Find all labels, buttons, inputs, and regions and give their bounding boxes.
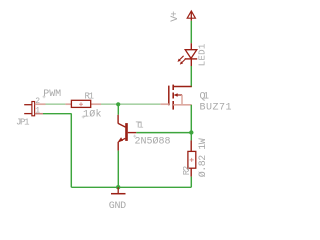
svg-text:T1: T1: [136, 121, 144, 131]
svg-text:GND: GND: [109, 201, 127, 210]
svg-text:PWM: PWM: [43, 89, 61, 100]
svg-text:Q1: Q1: [200, 91, 210, 102]
svg-text:Ø.82 1W: Ø.82 1W: [197, 138, 209, 177]
svg-text:V+: V+: [170, 11, 181, 22]
svg-text:LED1: LED1: [197, 44, 207, 67]
svg-text:1Øk: 1Øk: [83, 108, 102, 120]
svg-text:JP1: JP1: [16, 118, 30, 128]
svg-text:BUZ71: BUZ71: [200, 103, 232, 114]
svg-text:2N5Ø88: 2N5Ø88: [135, 136, 171, 148]
svg-text:R2: R2: [182, 166, 192, 176]
svg-text:R1: R1: [85, 92, 95, 102]
